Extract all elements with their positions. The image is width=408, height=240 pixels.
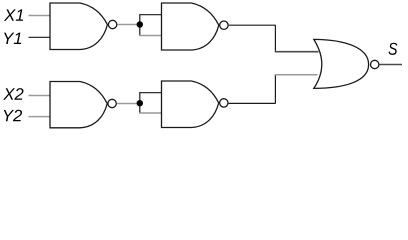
wire X1 input [29, 15, 51, 17]
nand gate U3 [50, 82, 107, 128]
bubble U3 output [108, 99, 116, 107]
nor gate U5 [314, 39, 369, 88]
junction node A [137, 21, 143, 27]
wire U3 output to node B [117, 103, 137, 105]
wire bottom jog vertical [274, 74, 276, 103]
wire top jog vertical [274, 25, 276, 52]
wire node B to U4 top input [139, 92, 161, 94]
node Y2 [4, 110, 22, 122]
node X2 [3, 88, 23, 100]
wire U4 output horizontal [229, 102, 276, 104]
bubble U1 output [108, 20, 116, 28]
wire U2 output horizontal [229, 24, 276, 26]
wire node A to U2 bottom input [139, 35, 161, 37]
node Y1 [4, 33, 21, 44]
bubble U5 output [371, 60, 379, 68]
wire node A to U2 top input [139, 14, 161, 16]
wire X2 input [29, 95, 51, 97]
nand gate U4 [162, 81, 219, 128]
wire Y1 input [29, 36, 51, 38]
bubble U2 output [220, 21, 228, 29]
node S [389, 43, 398, 55]
wire node A vertical branch [139, 15, 141, 36]
node X1 [4, 9, 23, 20]
junction node B [137, 100, 143, 106]
wire U1 output to node A [117, 24, 137, 26]
wire node B to U4 bottom input [139, 112, 161, 114]
nand gate U2 [162, 3, 219, 50]
wire top input run to U5 [275, 51, 319, 53]
bubble U4 output [220, 99, 228, 107]
wire bottom input run to U5 [275, 74, 318, 76]
wire S output [380, 64, 403, 66]
wire Y2 input [29, 116, 51, 118]
wire node B vertical branch [139, 93, 141, 113]
nand gate U1 [50, 3, 107, 50]
